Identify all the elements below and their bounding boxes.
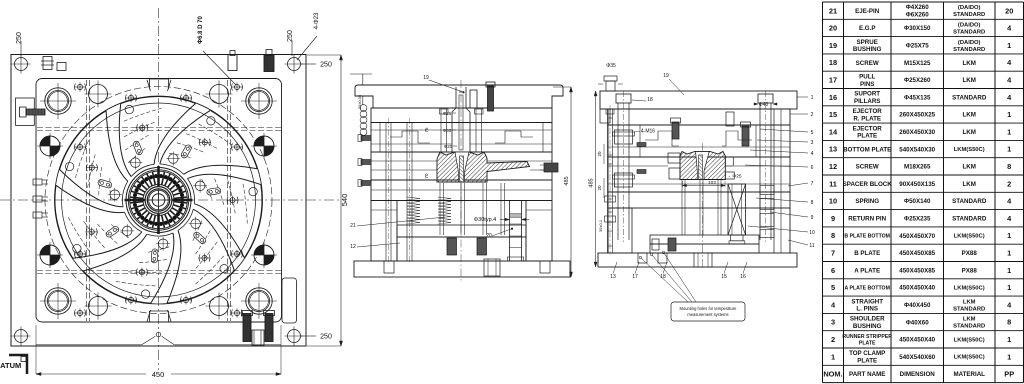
svg-text:LKM: LKM (962, 181, 975, 188)
svg-text:260X450X25: 260X450X25 (899, 112, 935, 119)
svg-text:Φ30X150: Φ30X150 (904, 25, 931, 32)
svg-text:17: 17 (829, 76, 837, 85)
section C: pull pin head above plate (604, 76, 617, 81)
return pin hole (89, 85, 108, 104)
section B: part center slot (455, 152, 469, 182)
svg-text:70: 70 (424, 173, 429, 179)
svg-text:LKM(S50C): LKM(S50C) (954, 355, 985, 361)
svg-text:STANDARD: STANDARD (953, 12, 985, 18)
pocket dashed line top (37, 127, 281, 129)
dim 250 bottom-right horizontal (301, 335, 316, 337)
hub outer rings (126, 168, 191, 233)
svg-text:Φ6X260: Φ6X260 (906, 12, 930, 19)
section C: part side step blocks (668, 153, 680, 163)
svg-text:1: 1 (1007, 283, 1011, 292)
svg-text:250: 250 (16, 32, 23, 44)
svg-text:TOP CLAMP: TOP CLAMP (849, 350, 885, 357)
svg-text:Φ30typ.4: Φ30typ.4 (474, 217, 496, 223)
svg-text:(DAIDO): (DAIDO) (958, 23, 981, 29)
svg-text:NOM.: NOM. (823, 370, 842, 379)
section B: right edge core plug (544, 163, 558, 172)
section C: ejector plate screws (668, 238, 676, 251)
svg-text:9: 9 (831, 214, 835, 223)
svg-text:PX88: PX88 (962, 267, 978, 274)
svg-text:5: 5 (811, 130, 814, 136)
svg-text:(DAIDO): (DAIDO) (958, 40, 981, 46)
svg-text:1: 1 (1007, 335, 1011, 344)
svg-text:Φ25X235: Φ25X235 (904, 216, 931, 223)
svg-text:SPACER BLOCK: SPACER BLOCK (843, 181, 893, 188)
svg-text:16: 16 (829, 93, 837, 102)
svg-text:B PLATE: B PLATE (854, 250, 880, 257)
svg-text:BUSHING: BUSHING (853, 323, 882, 330)
svg-text:450X450X85: 450X450X85 (899, 250, 935, 257)
svg-text:LKM: LKM (962, 164, 975, 171)
svg-text:450X450X40: 450X450X40 (899, 285, 935, 292)
svg-text:540X540X60: 540X540X60 (899, 354, 935, 361)
fan shroud circle inner (62, 103, 256, 297)
section C: spacer zone (607, 208, 609, 253)
section C: bottom clamp plate (598, 253, 797, 267)
pocket dashed line left (86, 80, 88, 321)
section B: left edge core pins (361, 136, 371, 141)
svg-text:6: 6 (831, 266, 835, 275)
svg-text:STANDARD: STANDARD (953, 47, 985, 53)
left edge pins (33, 179, 42, 185)
svg-text:LKM: LKM (962, 129, 975, 136)
svg-text:102: 102 (708, 180, 716, 186)
svg-text:BOTTOM PLATE: BOTTOM PLATE (843, 146, 891, 153)
svg-text:90X450X135: 90X450X135 (899, 181, 935, 188)
svg-text:LKM: LKM (962, 112, 975, 119)
section C: ejector plate (650, 244, 759, 253)
section B: sprue bushing (452, 87, 470, 152)
top edge clamp bolts left cluster (43, 57, 52, 70)
section C: dim 485 right view (595, 91, 597, 267)
svg-text:20: 20 (486, 233, 492, 239)
section B: screws in ejector plate (447, 238, 457, 255)
svg-text:MATERIAL: MATERIAL (953, 371, 985, 378)
section B: ejector pins under part (439, 183, 441, 235)
svg-text:LKM(S50C): LKM(S50C) (954, 147, 985, 153)
svg-text:450X450X70: 450X450X70 (899, 233, 935, 240)
datum target (254, 136, 274, 156)
svg-text:DATUM: DATUM (0, 361, 21, 370)
guide bushing (45, 88, 71, 114)
right edge clamp slot (282, 278, 297, 323)
section C: ejector rod hole (694, 253, 712, 267)
guide bushing (45, 288, 71, 314)
section B: A plate (371, 123, 552, 153)
svg-text:250: 250 (287, 30, 294, 42)
svg-text:RUNNER STRIPPER: RUNNER STRIPPER (842, 334, 892, 340)
temperature mounting holes (639, 256, 642, 259)
section C: ejector pins (681, 180, 683, 235)
svg-text:B PLATE BOTTOM: B PLATE BOTTOM (844, 233, 890, 239)
return pin hole (89, 297, 108, 316)
section C: right guide pin (758, 94, 773, 103)
svg-text:RETURN PIN: RETURN PIN (848, 216, 886, 223)
svg-text:SPRING: SPRING (855, 198, 879, 205)
svg-text:9: 9 (811, 215, 814, 221)
fan blade 5 (83, 234, 147, 271)
svg-text:PULL: PULL (859, 73, 875, 80)
svg-text:18: 18 (829, 58, 837, 67)
section B: B plate bottom (371, 180, 552, 201)
svg-text:540X540X30: 540X540X30 (899, 146, 935, 153)
section B: sprue top bolts (488, 86, 494, 111)
svg-text:LKM: LKM (962, 60, 975, 67)
svg-text:measurement systems: measurement systems (687, 312, 728, 317)
svg-text:M18X265: M18X265 (904, 164, 931, 171)
hub cardinal marks (157, 166, 160, 186)
svg-text:20: 20 (1005, 6, 1013, 15)
section C: left guide pin (616, 94, 631, 103)
svg-text:STANDARD: STANDARD (952, 198, 987, 205)
svg-text:STANDARD: STANDARD (952, 216, 987, 223)
section C: pull pin collars (605, 196, 616, 202)
left edge clamp bolt (26, 109, 45, 115)
fan blade 7 (106, 111, 128, 181)
svg-text:PLATE: PLATE (857, 358, 877, 365)
section C: A plate (608, 125, 790, 157)
svg-text:L. PINS: L. PINS (856, 306, 878, 313)
svg-text:450X450X40: 450X450X40 (899, 337, 935, 344)
plan view: inner plate square 450x450 (36, 79, 282, 323)
return pin hole (210, 297, 229, 316)
svg-text:1: 1 (1007, 145, 1011, 154)
svg-text:3: 3 (811, 140, 814, 146)
return pin hole (210, 85, 229, 104)
BOM table grid (823, 1, 1024, 3)
svg-text:2: 2 (831, 335, 835, 344)
section B: parting line details (371, 129, 552, 131)
svg-text:Φ50X140: Φ50X140 (904, 198, 931, 205)
fan blade 1 (154, 103, 196, 164)
section C: return pin spring with cross (728, 184, 746, 235)
section C: dim 102 under part (683, 185, 726, 187)
svg-text:2: 2 (1007, 179, 1011, 188)
svg-text:1: 1 (1007, 266, 1011, 275)
pocket dashed line right (227, 80, 229, 321)
svg-text:11: 11 (809, 243, 814, 249)
section C: runner plate left tab (600, 109, 610, 123)
svg-text:LKM: LKM (962, 77, 975, 84)
section B: center core pin (460, 156, 464, 182)
svg-text:STANDARD: STANDARD (952, 94, 987, 101)
section C: screws at top (672, 122, 679, 139)
svg-text:LKM(S50C): LKM(S50C) (954, 337, 985, 343)
svg-text:LKM(S50C): LKM(S50C) (954, 286, 985, 292)
section B: ejector retainer plate (397, 225, 526, 237)
svg-text:3: 3 (831, 318, 835, 327)
svg-text:R. PLATE: R. PLATE (853, 115, 881, 122)
svg-text:Φ20: Φ20 (444, 144, 453, 149)
svg-text:EJE-PIN: EJE-PIN (855, 8, 880, 15)
section B: dim 485 (570, 87, 572, 277)
svg-text:Φ4X260: Φ4X260 (906, 4, 930, 11)
svg-text:SPRUE: SPRUE (857, 39, 878, 46)
section B: view centerline (460, 80, 462, 282)
hub dot ring (159, 174, 163, 178)
datum target (40, 136, 60, 156)
section B: top clamp plate (355, 85, 563, 108)
svg-text:8: 8 (1007, 162, 1011, 171)
svg-text:15: 15 (829, 110, 837, 119)
section B: ejector plate (397, 237, 526, 261)
svg-text:SUPORT: SUPORT (854, 91, 880, 98)
svg-text:4-Φ23: 4-Φ23 (314, 12, 320, 29)
section C: B plate bottom (608, 192, 790, 208)
guide bushing (246, 288, 272, 314)
svg-text:(DAIDO): (DAIDO) (958, 5, 981, 11)
svg-text:PILLARS: PILLARS (854, 98, 880, 105)
svg-text:485: 485 (589, 178, 595, 187)
section B: spacer blocks (371, 201, 397, 262)
fan blade 4 (167, 230, 181, 303)
svg-text:250: 250 (320, 334, 332, 341)
svg-text:M15X125: M15X125 (904, 60, 931, 67)
section C: left column collar ticks (608, 117, 613, 119)
note leader lines (641, 258, 688, 302)
svg-text:17: 17 (632, 274, 638, 280)
section C: B plate (608, 157, 790, 192)
section B: bottom plate bolts (384, 261, 394, 273)
fan shroud circle outer (55, 96, 263, 304)
section B: pull pin columns (385, 122, 387, 261)
section C: part center slot (696, 152, 710, 180)
bottom locating mark (147, 310, 171, 323)
svg-text:EJECTOR: EJECTOR (853, 125, 883, 132)
svg-text:2: 2 (811, 112, 814, 118)
bottom edge notch with circle (36, 344, 142, 346)
section B: cavity pocket steps (380, 123, 543, 153)
svg-text:Φ40X60: Φ40X60 (906, 319, 930, 326)
fan cavity outer dashed circle (45, 87, 272, 314)
svg-text:450X450X85: 450X450X85 (899, 267, 935, 274)
svg-text:8: 8 (811, 200, 814, 206)
svg-text:6: 6 (811, 165, 814, 171)
hub spoke ring (158, 171, 160, 184)
svg-text:15: 15 (721, 274, 727, 280)
svg-text:21: 21 (350, 223, 356, 229)
svg-text:1: 1 (1007, 127, 1011, 136)
svg-text:12: 12 (829, 162, 837, 171)
svg-text:SHOULDER: SHOULDER (850, 316, 885, 323)
svg-text:20: 20 (597, 151, 602, 157)
svg-text:Φ25: Φ25 (732, 174, 741, 180)
svg-text:Φ25: Φ25 (443, 111, 452, 116)
svg-text:PLATE: PLATE (857, 133, 877, 140)
svg-text:1: 1 (1007, 41, 1011, 50)
svg-text:250: 250 (320, 62, 332, 69)
dim 450 bottom (36, 373, 281, 375)
svg-text:BUSHING: BUSHING (853, 46, 882, 53)
section B: sprue puller pins (440, 109, 442, 152)
svg-text:5: 5 (831, 283, 835, 292)
svg-text:260X450X30: 260X450X30 (899, 129, 935, 136)
svg-text:EJECTOR: EJECTOR (853, 108, 883, 115)
svg-text:8: 8 (831, 231, 835, 240)
svg-text:1: 1 (1007, 231, 1011, 240)
svg-text:19: 19 (829, 41, 837, 50)
section C: molded part cross-section (hatched) (680, 152, 725, 180)
svg-text:Φ30: Φ30 (443, 128, 452, 133)
ejector symbols near corners (128, 95, 133, 100)
svg-text:Φ35: Φ35 (606, 63, 616, 69)
dim 250 top-right horizontal (301, 63, 316, 65)
svg-text:16: 16 (740, 274, 746, 280)
hub inner circles (145, 187, 172, 214)
svg-text:Φ25X260: Φ25X260 (904, 77, 931, 84)
svg-text:19: 19 (423, 75, 429, 81)
svg-text:DIMENSION: DIMENSION (900, 371, 936, 378)
svg-text:14: 14 (829, 127, 838, 136)
svg-text:STANDARD: STANDARD (953, 306, 985, 312)
svg-text:SCREW: SCREW (856, 60, 879, 67)
section B: bottom clamp plate (354, 261, 570, 277)
svg-text:450: 450 (152, 370, 165, 379)
datum target (40, 245, 60, 265)
svg-text:20: 20 (597, 185, 602, 191)
svg-text:8: 8 (1007, 318, 1011, 327)
svg-text:A PLATE: A PLATE (854, 267, 880, 274)
section B: return pin springs (407, 197, 420, 199)
svg-text:PLATE: PLATE (859, 340, 876, 346)
plan view centerline vertical (158, 8, 160, 374)
section B: runner stripper plate (371, 108, 552, 123)
section C: shoulder bushings on pins (615, 130, 633, 144)
fan blade 2 (184, 165, 258, 174)
svg-text:1: 1 (1007, 249, 1011, 258)
svg-text:Φ25X75: Φ25X75 (906, 43, 930, 50)
svg-text:4: 4 (811, 151, 814, 157)
plan view: mold plate outer square 540x540 (11, 55, 306, 347)
bottom edge clamp bolts (243, 314, 251, 342)
corner pilot hole bottom-right (288, 330, 301, 343)
svg-text:11: 11 (829, 179, 837, 188)
svg-text:STRAIGHT: STRAIGHT (851, 298, 883, 305)
section B: support pillar (510, 201, 522, 262)
svg-text:30±0.05: 30±0.05 (357, 94, 362, 109)
pocket dashed line bottom (37, 270, 281, 272)
svg-text:19: 19 (663, 73, 669, 79)
guide bushing (246, 88, 272, 114)
svg-text:13: 13 (829, 145, 837, 154)
svg-text:75: 75 (424, 127, 429, 133)
section C: pull pin left (607, 109, 609, 253)
svg-text:485: 485 (564, 176, 570, 185)
svg-text:Mounting holes for temperature: Mounting holes for temperature (680, 306, 738, 311)
top edge clamp bolts right cluster (228, 55, 237, 71)
svg-text:10: 10 (829, 197, 837, 206)
svg-text:STANDARD: STANDARD (953, 30, 985, 36)
svg-text:1: 1 (1007, 110, 1011, 119)
svg-text:Φ40: Φ40 (759, 102, 769, 108)
svg-text:20: 20 (829, 24, 837, 33)
svg-text:7: 7 (831, 249, 835, 258)
section C: top clamp plate (600, 91, 797, 109)
svg-text:LKM: LKM (963, 299, 976, 305)
section B: B plate (371, 152, 552, 180)
section C: part centerline (702, 143, 704, 268)
section B: label 19 shelf line (350, 73, 372, 75)
svg-text:18: 18 (647, 97, 653, 103)
corner pilot hole top-right (288, 58, 301, 71)
svg-text:4-M16: 4-M16 (641, 129, 655, 135)
plan view centerline horizontal (0, 199, 341, 201)
section C: ejector retainer plate (650, 235, 759, 244)
fan blade 3 (194, 204, 244, 258)
dim 540 right side (340, 55, 342, 346)
svg-text:PX88: PX88 (962, 250, 978, 257)
svg-text:LKM: LKM (963, 317, 976, 323)
svg-text:Φ40X450: Φ40X450 (904, 302, 931, 309)
svg-text:PART NAME: PART NAME (849, 371, 885, 378)
datum target (254, 245, 274, 265)
svg-text:10: 10 (809, 230, 815, 236)
svg-text:12: 12 (350, 244, 356, 250)
left edge clamp plate (16, 98, 35, 125)
svg-text:STANDARD: STANDARD (953, 324, 985, 330)
corner pilot hole top-left (15, 58, 28, 71)
corner pilot hole bottom-left (15, 330, 28, 343)
section C: cavity steps (640, 125, 756, 157)
section C: left spacer block (608, 208, 632, 253)
svg-text:LKM(S50C): LKM(S50C) (954, 234, 985, 240)
svg-text:E.G.P: E.G.P (859, 25, 876, 32)
section B: ejector rod hole (484, 259, 500, 276)
svg-text:540: 540 (340, 194, 349, 207)
svg-text:7: 7 (811, 181, 814, 187)
svg-text:13: 13 (610, 274, 616, 280)
svg-text:Φ45X135: Φ45X135 (904, 94, 931, 101)
svg-text:PINS: PINS (860, 81, 874, 88)
svg-text:SCREW: SCREW (856, 164, 879, 171)
svg-text:PP: PP (1004, 370, 1014, 379)
svg-text:1: 1 (831, 352, 835, 361)
fan blade 6 (56, 185, 125, 212)
section C: runner stripper plate (608, 109, 790, 125)
section C: right spacer stack (760, 186, 774, 195)
section C: bottom plate bolts (638, 253, 647, 263)
svg-text:A PLATE BOTTOM: A PLATE BOTTOM (844, 285, 889, 291)
svg-text:1: 1 (1007, 352, 1011, 361)
note box: mounting holes for temperature measurement systems (671, 302, 745, 321)
svg-text:1: 1 (811, 95, 814, 101)
svg-text:21: 21 (829, 6, 837, 15)
section B: runner plate spring coil (362, 96, 364, 105)
sprue locating mark top of plate (147, 79, 171, 91)
svg-text:Φ6.8 D 70: Φ6.8 D 70 (198, 16, 204, 44)
section C: side core pins (637, 143, 646, 147)
svg-text:30±0.1: 30±0.1 (598, 219, 603, 232)
